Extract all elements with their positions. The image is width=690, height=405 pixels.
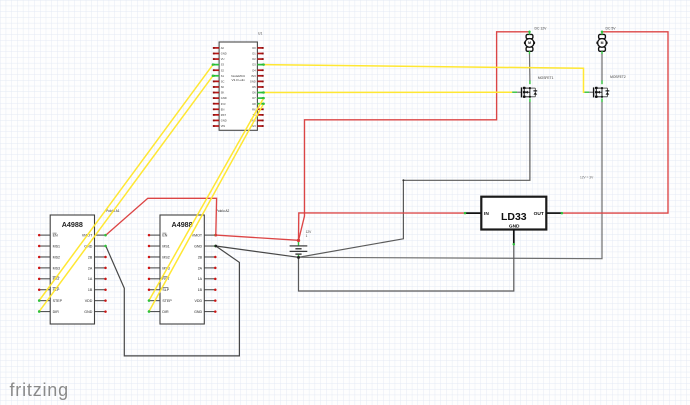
svg-text:SK: SK <box>221 91 225 95</box>
wire U1 S3 to A1 STEP <box>39 65 213 301</box>
junction node A2 VMOT <box>214 234 217 237</box>
U1 pin D0 (right) <box>252 46 263 50</box>
svg-text:1A: 1A <box>88 277 93 281</box>
wire A2 GND to battery negative <box>216 246 299 257</box>
A2 pin SLP <box>148 288 170 292</box>
svg-text:VU: VU <box>221 57 225 61</box>
svg-text:MS1: MS1 <box>53 244 60 248</box>
svg-text:STEP: STEP <box>53 299 63 303</box>
wire MOSFET2 source to battery negative <box>299 102 603 259</box>
svg-text:V3.0 Lolin: V3.0 Lolin <box>232 78 246 82</box>
U1 pin D5 (right) <box>252 85 263 89</box>
A2 pin GND <box>194 310 216 314</box>
A2 pin 1B <box>198 288 217 292</box>
A2 pin RST <box>148 277 171 281</box>
A2 pin STEP <box>148 299 173 303</box>
U1 pin D7 (right) <box>252 96 263 100</box>
A1 pin RST <box>38 277 61 281</box>
svg-text:DIR: DIR <box>53 310 60 314</box>
junction node battery negative <box>297 256 300 259</box>
A1 pin 1B <box>88 288 107 292</box>
U1 pin 3V3 (right) <box>251 124 264 128</box>
wire motor1 to MOSFET1 drain <box>529 54 531 81</box>
svg-text:GND: GND <box>221 119 227 123</box>
svg-text:EN: EN <box>53 234 58 238</box>
svg-text:STEP: STEP <box>162 299 172 303</box>
U1 pin SK (left) <box>213 91 225 95</box>
LD33 pin OUT <box>546 212 562 214</box>
A1 pin GND <box>84 310 106 314</box>
U1 pin S3 (left) <box>213 63 225 67</box>
A2 pin GND <box>194 244 216 248</box>
svg-text:1A: 1A <box>198 277 203 281</box>
svg-text:MOSFET2: MOSFET2 <box>610 75 626 79</box>
A2 pin MS3 <box>148 266 170 270</box>
wire U1 D3 to MOSFET2 gate <box>264 65 585 93</box>
svg-text:EN: EN <box>162 234 167 238</box>
LD33 pin IN <box>465 212 481 214</box>
battery 12V (plates) <box>290 242 308 257</box>
A1 pin VMOT <box>82 234 107 238</box>
svg-text:MS3: MS3 <box>53 266 60 270</box>
U1 pin TX (right) <box>252 113 263 117</box>
wire U1 D8 to A2 DIR <box>149 104 264 312</box>
wire A1 GND loop to A2 GND <box>106 246 240 356</box>
connection dots (green endpoints) <box>38 31 603 313</box>
motor DC 5V <box>596 32 607 55</box>
A1 pin MS3 <box>38 266 60 270</box>
wire U1 S1 to A1 DIR <box>39 76 213 312</box>
U1 pin SC (left) <box>213 79 225 83</box>
svg-text:S2: S2 <box>221 68 225 72</box>
svg-text:U1: U1 <box>258 32 262 36</box>
wire U1 D7 to A2 STEP <box>149 98 264 300</box>
svg-text:2A: 2A <box>88 266 93 270</box>
wire 12V: A2 VMOT to A1 VMOT <box>106 198 217 235</box>
wire battery negative to LD33 GND <box>299 244 514 291</box>
U1 pin D4 (right) <box>252 68 263 72</box>
svg-text:3V3: 3V3 <box>221 102 226 106</box>
A1 pin VDD <box>85 299 107 303</box>
svg-text:SC: SC <box>221 79 225 83</box>
svg-text:2B: 2B <box>88 255 93 259</box>
svg-text:D3: D3 <box>252 63 256 67</box>
svg-text:D4: D4 <box>252 68 256 72</box>
U1 pin RX (right) <box>252 107 264 111</box>
svg-text:12V = 3V: 12V = 3V <box>580 176 594 180</box>
svg-text:VIN: VIN <box>221 124 225 128</box>
svg-text:S0: S0 <box>221 85 225 89</box>
U1 pin GND (left) <box>213 119 227 123</box>
wire 12V: battery+ to A2 VMOT <box>216 235 299 240</box>
svg-text:S3: S3 <box>221 63 225 67</box>
A1 pin MS1 <box>38 244 60 248</box>
svg-text:GND: GND <box>221 52 227 56</box>
LD33 pin GND <box>513 230 515 245</box>
bendpoint dot MOSFET1 source wire <box>402 179 404 181</box>
A2 pin DIR <box>148 310 169 314</box>
U1 pin 3V3 (right) <box>251 74 264 78</box>
svg-text:2B: 2B <box>198 255 203 259</box>
svg-text:DIR: DIR <box>162 310 169 314</box>
U1 pin D3 (right) <box>252 63 263 67</box>
svg-text:1B: 1B <box>198 288 203 292</box>
transistor MOSFET1 (N-MOSFET) <box>512 80 537 102</box>
U1 pin D6 (right) <box>252 91 263 95</box>
svg-text:M: M <box>601 41 604 45</box>
U1 pin D2 (right) <box>252 57 263 61</box>
svg-text:MOSFET1: MOSFET1 <box>538 76 554 80</box>
svg-text:3V3: 3V3 <box>251 74 256 78</box>
svg-text:MS2: MS2 <box>53 255 60 259</box>
svg-text:D1: D1 <box>252 52 256 56</box>
U1 pin 3V3 (left) <box>213 102 226 106</box>
A2 pin MS1 <box>148 244 170 248</box>
svg-text:VDD: VDD <box>195 299 203 303</box>
A1 pin STEP <box>38 299 63 303</box>
A1 pin SLP <box>38 288 60 292</box>
wire motor2 to MOSFET2 drain <box>601 54 603 81</box>
wire 3V: LD33 OUT to DC 5V motor <box>562 32 668 213</box>
svg-text:D6: D6 <box>252 91 256 95</box>
U1 pin A0 (left) <box>213 46 225 50</box>
junction node A2 GND <box>214 245 217 248</box>
svg-text:RST: RST <box>221 113 227 117</box>
voltage regulator LD33 body <box>481 197 546 230</box>
microcontroller U1 NodeMCU V3.0 Lolin body <box>219 42 257 130</box>
U1 pin GND (left) <box>213 52 227 56</box>
svg-text:A0: A0 <box>221 46 225 50</box>
A1 pin DIR <box>38 310 59 314</box>
svg-text:D0: D0 <box>252 46 256 50</box>
svg-text:M: M <box>528 41 531 45</box>
A2 pin 1A <box>198 277 217 281</box>
A1 pin 2B <box>88 255 107 259</box>
U1 pin VIN (left) <box>213 124 225 128</box>
U1 pin S1 (left) <box>213 74 225 78</box>
motor DC 12V <box>524 32 535 55</box>
A2 pin EN <box>148 233 168 237</box>
U1 pin EN (left) <box>213 107 225 111</box>
A2 pin VDD <box>195 299 217 303</box>
svg-text:D2: D2 <box>252 57 256 61</box>
svg-text:Pololu A2: Pololu A2 <box>216 209 230 213</box>
A1 pin MS2 <box>38 255 60 259</box>
label 12V 1 <box>306 230 313 238</box>
svg-text:VMOT: VMOT <box>192 234 203 238</box>
svg-text:GND: GND <box>194 244 202 248</box>
A1 pin EN <box>38 233 58 237</box>
svg-text:D8: D8 <box>252 102 256 106</box>
svg-text:EN: EN <box>221 107 225 111</box>
U1 pin D1 (right) <box>252 52 263 56</box>
svg-text:SLP: SLP <box>162 288 169 292</box>
svg-text:VDD: VDD <box>85 299 93 303</box>
svg-text:IN: IN <box>484 211 489 217</box>
A2 pin MS2 <box>148 255 170 259</box>
svg-text:OUT: OUT <box>534 211 544 217</box>
svg-text:D7: D7 <box>252 96 256 100</box>
A1 pin 2A <box>88 266 107 270</box>
svg-text:GND: GND <box>250 79 256 83</box>
U1 pin VU (left) <box>213 57 225 61</box>
svg-text:RX: RX <box>252 107 256 111</box>
junction node battery positive <box>297 239 300 242</box>
wire U1 D6 to MOSFET1 gate <box>264 91 512 93</box>
U1 pin D8 (right) <box>252 102 263 106</box>
svg-text:fritzing: fritzing <box>10 380 69 400</box>
U1 pin GND (left) <box>213 96 227 100</box>
svg-text:GND: GND <box>221 96 227 100</box>
A1 pin 1A <box>88 277 107 281</box>
U1 pin S2 (left) <box>213 68 225 72</box>
A2 pin 2B <box>198 255 217 259</box>
A1 pin GND <box>84 244 106 248</box>
A2 pin VMOT <box>192 234 217 238</box>
svg-text:DC 5V: DC 5V <box>606 27 617 31</box>
svg-text:GND: GND <box>84 310 92 314</box>
svg-text:D5: D5 <box>252 85 256 89</box>
wire MOSFET1 source to battery negative <box>299 102 530 257</box>
U1 pin S0 (left) <box>213 85 225 89</box>
A2 pin 2A <box>198 266 217 270</box>
svg-text:LD33: LD33 <box>501 211 527 223</box>
svg-text:A4988: A4988 <box>62 220 83 229</box>
wire 12V: battery+ up to DC 12V motor <box>299 32 530 241</box>
stepper driver A2 A4988 body <box>160 215 204 324</box>
svg-text:GND: GND <box>509 223 520 229</box>
svg-text:MS1: MS1 <box>162 244 169 248</box>
svg-text:MS2: MS2 <box>162 255 169 259</box>
transistor MOSFET2 (N-MOSFET) <box>584 80 609 102</box>
U1 pin GND (right) <box>250 119 264 123</box>
svg-text:GND: GND <box>194 310 202 314</box>
svg-text:DC 12V: DC 12V <box>535 27 548 31</box>
wire 12V: battery+ to LD33 IN <box>299 213 466 241</box>
svg-text:1: 1 <box>306 234 308 238</box>
svg-text:1B: 1B <box>88 288 93 292</box>
U1 pin RST (left) <box>213 113 227 117</box>
svg-text:S1: S1 <box>221 74 225 78</box>
svg-text:2A: 2A <box>198 266 203 270</box>
U1 pin GND (right) <box>250 79 264 83</box>
stepper driver A1 A4988 body <box>50 215 94 324</box>
